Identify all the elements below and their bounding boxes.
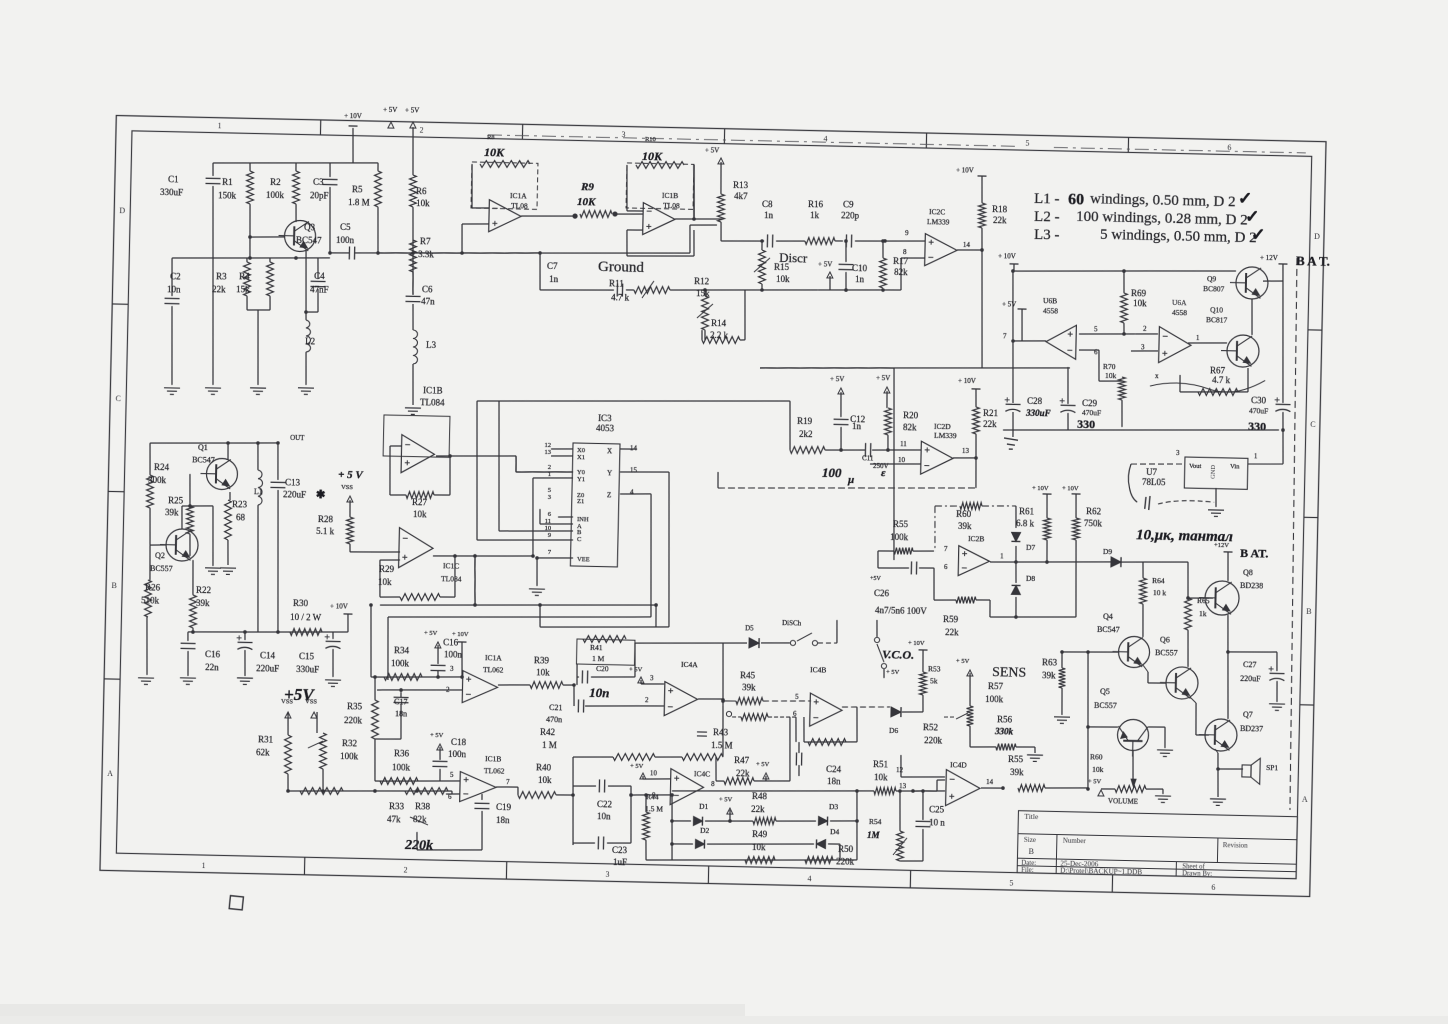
svg-text:B: B (1029, 847, 1035, 856)
svg-text:R20: R20 (903, 410, 919, 420)
svg-text:+ 10V: + 10V (956, 166, 974, 174)
svg-text:220k: 220k (836, 856, 855, 866)
svg-text:5: 5 (548, 487, 551, 494)
svg-text:D6: D6 (889, 726, 899, 735)
svg-text:C23: C23 (612, 845, 628, 855)
svg-text:3.3k: 3.3k (418, 249, 434, 259)
svg-text:C1: C1 (168, 174, 179, 184)
svg-text:+ 10V: + 10V (452, 631, 469, 638)
svg-text:D2: D2 (700, 826, 710, 835)
svg-text:✓: ✓ (1238, 189, 1253, 208)
svg-text:10: 10 (898, 456, 906, 464)
svg-text:+ 5V: + 5V (629, 666, 643, 673)
svg-text:220k: 220k (404, 838, 433, 854)
svg-text:BC817: BC817 (1206, 315, 1228, 324)
svg-text:47k: 47k (387, 814, 401, 824)
svg-text:+ 5V: + 5V (1088, 778, 1102, 785)
svg-text:15k: 15k (696, 288, 710, 298)
svg-text:C21: C21 (549, 703, 563, 712)
svg-text:R11: R11 (609, 278, 624, 288)
svg-text:C7: C7 (547, 261, 558, 271)
svg-text:R8: R8 (487, 134, 495, 141)
svg-text:IC1B: IC1B (662, 191, 678, 200)
svg-text:5k: 5k (930, 676, 938, 685)
svg-text:Vin: Vin (1230, 463, 1240, 470)
svg-text:750k: 750k (1084, 518, 1103, 528)
svg-text:BC547: BC547 (296, 235, 322, 246)
svg-text:+ 5V: + 5V (383, 106, 397, 114)
svg-text:R56: R56 (997, 714, 1013, 724)
svg-text:R41: R41 (590, 643, 603, 652)
svg-text:D5: D5 (745, 624, 754, 632)
svg-text:IC2C: IC2C (929, 207, 945, 216)
svg-text:3: 3 (548, 494, 551, 501)
svg-text:Q3: Q3 (304, 222, 316, 232)
svg-text:4558: 4558 (1043, 306, 1058, 315)
svg-text:windings, 0.50 mm, D 2: windings, 0.50 mm, D 2 (1090, 191, 1236, 210)
svg-text:220uF: 220uF (256, 663, 279, 673)
svg-text:R19: R19 (797, 416, 813, 426)
svg-text:V.C.O.: V.C.O. (882, 647, 914, 662)
svg-text:R3: R3 (216, 271, 227, 281)
svg-text:10n: 10n (589, 685, 610, 700)
svg-text:100n: 100n (448, 749, 467, 759)
svg-text:100n: 100n (336, 235, 355, 245)
svg-text:VEE: VEE (577, 556, 590, 563)
svg-text:D9: D9 (1103, 547, 1113, 556)
svg-text:R61: R61 (1019, 506, 1034, 516)
svg-text:R39: R39 (534, 655, 550, 665)
svg-text:1n: 1n (764, 210, 774, 220)
svg-text:2: 2 (548, 464, 551, 471)
svg-text:330: 330 (1248, 419, 1266, 433)
svg-text:R23: R23 (232, 499, 248, 509)
svg-text:+ 5V: + 5V (424, 630, 438, 637)
svg-text:C9: C9 (843, 199, 854, 209)
svg-text:Drawn By:: Drawn By: (1182, 870, 1212, 878)
svg-text:R21: R21 (983, 408, 998, 418)
svg-text:C17: C17 (394, 697, 408, 706)
svg-text:1.5 M: 1.5 M (645, 804, 663, 813)
svg-text:R60: R60 (956, 509, 972, 519)
svg-text:R51: R51 (873, 759, 888, 769)
svg-text:5: 5 (1025, 139, 1029, 148)
svg-text:1k: 1k (810, 210, 820, 220)
svg-text:IC2B: IC2B (968, 534, 984, 543)
svg-text:Number: Number (1063, 837, 1087, 846)
svg-text:SENS: SENS (992, 665, 1027, 681)
svg-text:10k: 10k (378, 577, 392, 587)
svg-text:R31: R31 (258, 734, 273, 744)
svg-text:VSS: VSS (281, 698, 293, 705)
svg-text:L1: L1 (254, 487, 263, 496)
svg-text:470uF: 470uF (1249, 406, 1268, 415)
svg-text:U6B: U6B (1043, 296, 1057, 305)
svg-text:+ 10V: + 10V (344, 112, 362, 120)
svg-text:C30: C30 (1251, 395, 1267, 405)
svg-text:+ 10V: + 10V (1032, 485, 1049, 492)
svg-text:39k: 39k (1010, 767, 1024, 777)
svg-text:BC557: BC557 (1094, 701, 1117, 710)
svg-text:X: X (607, 447, 612, 455)
svg-text:1n: 1n (852, 421, 862, 431)
svg-text:1.5 M: 1.5 M (711, 740, 733, 750)
svg-text:6: 6 (1211, 883, 1215, 892)
svg-text:330uF: 330uF (296, 664, 319, 674)
svg-text:R35: R35 (347, 701, 363, 711)
svg-text:R34: R34 (394, 645, 410, 655)
svg-text:C: C (115, 394, 121, 403)
svg-text:C22: C22 (597, 799, 612, 809)
svg-text:R63: R63 (1042, 657, 1058, 667)
svg-text:B AT.: B AT. (1240, 546, 1269, 561)
svg-text:✓: ✓ (1251, 225, 1266, 244)
svg-text:10n: 10n (167, 284, 181, 294)
svg-text:1M: 1M (867, 830, 881, 840)
svg-text:150k: 150k (218, 190, 237, 200)
svg-text:R53: R53 (928, 664, 941, 673)
svg-text:C15: C15 (299, 651, 315, 661)
svg-text:5: 5 (1009, 879, 1013, 888)
svg-text:+ 5V: + 5V (886, 669, 900, 676)
svg-text:LM339: LM339 (934, 431, 957, 440)
svg-text:39k: 39k (165, 507, 179, 517)
svg-text:C19: C19 (496, 802, 512, 812)
svg-text:R24: R24 (154, 462, 170, 472)
svg-text:+ 5V: + 5V (430, 732, 444, 739)
svg-text:100: 100 (822, 465, 842, 480)
svg-text:C: C (577, 536, 581, 543)
svg-text:22k: 22k (736, 768, 750, 778)
svg-text:14: 14 (986, 778, 994, 786)
svg-text:+ 10V: + 10V (998, 252, 1016, 260)
svg-text:L3: L3 (426, 340, 437, 350)
svg-text:R67: R67 (1210, 365, 1226, 375)
svg-text:+ 5V: + 5V (876, 374, 890, 382)
svg-text:22k: 22k (945, 627, 959, 637)
svg-text:C4: C4 (314, 271, 325, 281)
svg-text:4n7/5n6 100V: 4n7/5n6 100V (875, 605, 927, 616)
svg-text:3: 3 (605, 870, 609, 879)
svg-text:D3: D3 (829, 802, 839, 811)
svg-text:TL084: TL084 (441, 574, 462, 583)
svg-text:VOLUME: VOLUME (1108, 797, 1138, 806)
svg-text:10 n: 10 n (929, 817, 945, 827)
svg-text:330uF: 330uF (1025, 408, 1051, 419)
svg-text:R64: R64 (1152, 576, 1165, 585)
svg-text:Revision: Revision (1223, 841, 1249, 850)
svg-text:Date:: Date: (1021, 860, 1036, 867)
svg-text:1 M: 1 M (542, 740, 557, 750)
svg-text:10k: 10k (874, 772, 888, 782)
svg-text:BD237: BD237 (1240, 724, 1263, 733)
svg-text:Q1: Q1 (198, 443, 208, 452)
svg-text:14: 14 (630, 444, 638, 452)
svg-text:R52: R52 (923, 722, 938, 732)
svg-text:39k: 39k (742, 682, 756, 692)
svg-text:13: 13 (544, 449, 551, 456)
svg-text:C8: C8 (762, 199, 773, 209)
svg-text:R4: R4 (239, 271, 250, 281)
svg-text:Y1: Y1 (577, 476, 585, 483)
svg-text:100k: 100k (985, 694, 1004, 704)
svg-text:R29: R29 (379, 564, 395, 574)
svg-text:+ 10V: + 10V (908, 640, 925, 647)
svg-text:470n: 470n (546, 715, 562, 724)
svg-text:1n: 1n (549, 274, 559, 284)
svg-text:R13: R13 (733, 180, 749, 190)
svg-text:R59: R59 (943, 614, 959, 624)
svg-text:R40: R40 (536, 762, 552, 772)
svg-text:TL084: TL084 (420, 397, 445, 408)
svg-text:GND: GND (1210, 465, 1217, 480)
svg-text:10n: 10n (597, 811, 611, 821)
svg-text:+ 5V: + 5V (830, 375, 844, 383)
svg-text:VSS: VSS (341, 484, 353, 491)
svg-text:39k: 39k (1042, 670, 1056, 680)
svg-text:10 / 2 W: 10 / 2 W (290, 612, 322, 623)
svg-text:10K: 10K (642, 149, 663, 163)
svg-text:10k: 10k (416, 198, 430, 208)
svg-text:D7: D7 (1026, 543, 1036, 552)
svg-text:Vout: Vout (1189, 463, 1202, 470)
svg-text:R12: R12 (694, 276, 709, 286)
svg-text:Q8: Q8 (1243, 568, 1253, 577)
svg-text:22k: 22k (751, 804, 765, 814)
svg-text:10: 10 (650, 769, 658, 777)
svg-text:R38: R38 (415, 801, 431, 811)
svg-text:+ 5V: + 5V (705, 146, 719, 154)
svg-text:60: 60 (1068, 191, 1084, 208)
svg-text:15: 15 (630, 466, 638, 474)
svg-text:R32: R32 (342, 738, 357, 748)
svg-text:+ 10V: + 10V (330, 602, 348, 610)
svg-text:R26: R26 (145, 582, 161, 592)
svg-text:BC557: BC557 (1155, 648, 1178, 657)
svg-text:C5: C5 (340, 222, 351, 232)
svg-text:4: 4 (807, 874, 811, 883)
svg-text:Z: Z (607, 491, 611, 499)
svg-text:R57: R57 (988, 681, 1004, 691)
svg-text:TL062: TL062 (483, 665, 504, 674)
svg-text:+ 5V: + 5V (818, 260, 832, 268)
svg-text:IC1A: IC1A (510, 191, 527, 200)
svg-text:R27: R27 (412, 497, 428, 507)
svg-text:10k: 10k (1133, 298, 1147, 308)
svg-text:R45: R45 (740, 670, 756, 680)
svg-text:B: B (111, 581, 117, 590)
svg-text:DiSCh: DiSCh (782, 619, 802, 627)
svg-text:C24: C24 (826, 764, 842, 774)
svg-text:IC2D: IC2D (934, 422, 951, 431)
svg-text:220uF: 220uF (1240, 674, 1261, 683)
svg-text:IC3: IC3 (598, 413, 612, 423)
svg-text:10k: 10k (413, 509, 427, 519)
svg-text:R36: R36 (394, 748, 410, 758)
svg-text:1n: 1n (855, 274, 865, 284)
svg-text:+ 5 V: + 5 V (338, 469, 365, 482)
svg-text:15k: 15k (236, 284, 250, 294)
svg-text:Q4: Q4 (1103, 612, 1113, 621)
svg-text:510k: 510k (141, 595, 160, 605)
svg-text:6: 6 (1227, 143, 1231, 152)
svg-text:R60: R60 (1090, 752, 1103, 761)
svg-text:Q6: Q6 (1160, 635, 1170, 644)
svg-text:Q7: Q7 (1243, 710, 1253, 719)
svg-text:VSS: VSS (305, 698, 317, 705)
svg-text:R50: R50 (838, 844, 854, 854)
svg-text:R62: R62 (1086, 506, 1101, 516)
svg-text:18n: 18n (496, 815, 510, 825)
svg-text:IC1B: IC1B (485, 754, 501, 763)
svg-text:22k: 22k (983, 419, 997, 429)
svg-text:300k: 300k (148, 475, 167, 485)
svg-text:μ: μ (847, 474, 854, 486)
svg-text:5 windings, 0.50 mm, D 2: 5 windings, 0.50 mm, D 2 (1100, 227, 1257, 246)
svg-text:47nF: 47nF (310, 284, 329, 294)
svg-text:L3 -: L3 - (1034, 227, 1060, 244)
svg-text:R14: R14 (711, 318, 727, 328)
svg-text:BC547: BC547 (1097, 625, 1120, 634)
svg-text:R18: R18 (992, 204, 1008, 214)
svg-text:4.7 k: 4.7 k (611, 292, 630, 302)
svg-text:C28: C28 (1027, 396, 1043, 406)
svg-text:R28: R28 (318, 514, 334, 524)
svg-text:✱: ✱ (316, 489, 325, 501)
svg-text:C20: C20 (596, 664, 609, 673)
svg-text:+ 5V: + 5V (630, 763, 644, 770)
svg-text:+ 10V: + 10V (958, 377, 976, 385)
svg-text:18n: 18n (395, 709, 407, 718)
svg-text:4.7 k: 4.7 k (1212, 375, 1231, 385)
svg-text:R2: R2 (270, 177, 281, 187)
svg-text:C16: C16 (205, 649, 221, 659)
svg-text:+ 5V: + 5V (719, 796, 733, 803)
svg-text:R44: R44 (646, 792, 659, 801)
svg-text:13: 13 (899, 782, 907, 790)
svg-text:IC4D: IC4D (950, 760, 967, 769)
svg-text:330k: 330k (994, 726, 1014, 736)
svg-text:1uF: 1uF (613, 857, 627, 867)
svg-text:File:: File: (1021, 867, 1034, 874)
svg-text:IC4B: IC4B (810, 665, 826, 674)
svg-text:78L05: 78L05 (1142, 477, 1166, 488)
svg-text:4k7: 4k7 (734, 191, 748, 201)
svg-text:R9: R9 (580, 181, 595, 193)
svg-text:100k: 100k (340, 751, 359, 761)
svg-text:62k: 62k (256, 747, 270, 757)
svg-text:12: 12 (896, 766, 904, 774)
svg-text:47n: 47n (421, 296, 435, 306)
svg-text:100k: 100k (391, 658, 410, 668)
svg-text:9: 9 (548, 532, 551, 539)
svg-text:220uF: 220uF (283, 489, 306, 499)
svg-text:10k: 10k (536, 667, 550, 677)
svg-text:U6A: U6A (1172, 298, 1187, 307)
svg-text:2k2: 2k2 (799, 429, 813, 439)
svg-text:C16: C16 (443, 637, 459, 647)
svg-text:R15: R15 (774, 262, 790, 272)
svg-text:68: 68 (236, 512, 246, 522)
svg-text:2.2 k: 2.2 k (710, 330, 729, 340)
svg-text:+ 12V: + 12V (1260, 254, 1278, 262)
svg-text:Size: Size (1024, 836, 1036, 844)
svg-text:R43: R43 (713, 727, 729, 737)
svg-text:R22: R22 (196, 585, 211, 595)
svg-text:1k: 1k (1199, 609, 1207, 618)
svg-text:BC557: BC557 (150, 564, 173, 573)
svg-text:A: A (107, 769, 113, 778)
svg-text:C6: C6 (422, 284, 433, 294)
svg-text:1: 1 (202, 861, 206, 870)
svg-text:R55: R55 (893, 519, 909, 529)
svg-text:D4: D4 (830, 827, 840, 836)
svg-text:Q9: Q9 (1207, 274, 1217, 283)
svg-text:10k: 10k (538, 775, 552, 785)
svg-text:10k: 10k (1105, 371, 1117, 380)
svg-text:Q2: Q2 (155, 551, 165, 560)
svg-text:+ 10V: + 10V (1062, 485, 1079, 492)
svg-text:+ 5V: + 5V (756, 761, 770, 768)
svg-text:IC4A: IC4A (681, 660, 698, 669)
svg-text:R54: R54 (869, 817, 882, 826)
svg-text:4053: 4053 (596, 423, 615, 433)
svg-text:D: D (1314, 232, 1320, 241)
svg-text:20pF: 20pF (310, 190, 329, 200)
svg-text:39k: 39k (958, 521, 972, 531)
svg-text:1 M: 1 M (592, 654, 605, 663)
svg-text:R49: R49 (752, 829, 768, 839)
svg-text:14: 14 (963, 241, 971, 249)
svg-text:220p: 220p (841, 210, 860, 220)
svg-text:C29: C29 (1082, 398, 1098, 408)
svg-text:Q5: Q5 (1100, 687, 1110, 696)
svg-text:D1: D1 (699, 802, 709, 811)
svg-text:B: B (1306, 607, 1312, 616)
svg-text:BC547: BC547 (192, 455, 215, 464)
svg-text:+ 5V: + 5V (405, 106, 419, 114)
svg-text:C10: C10 (852, 263, 868, 273)
svg-text:R30: R30 (293, 598, 309, 608)
svg-text:X1: X1 (577, 454, 585, 461)
svg-text:2: 2 (419, 126, 423, 135)
svg-text:R69: R69 (1131, 288, 1147, 298)
svg-text:10k: 10k (1092, 765, 1104, 774)
svg-text:R7: R7 (420, 236, 431, 246)
svg-text:13: 13 (962, 447, 970, 455)
svg-text:✓: ✓ (1245, 207, 1260, 226)
svg-text:TL062: TL062 (484, 766, 505, 775)
svg-text:39k: 39k (196, 598, 210, 608)
svg-text:1: 1 (218, 121, 222, 130)
svg-text:+5V: +5V (870, 576, 882, 582)
svg-text:R5: R5 (352, 184, 363, 194)
svg-text:BC807: BC807 (1203, 284, 1225, 293)
svg-text:+ 5V: + 5V (1002, 300, 1016, 308)
svg-text:R47: R47 (734, 755, 750, 765)
svg-text:R16: R16 (808, 199, 824, 209)
svg-text:R42: R42 (540, 727, 555, 737)
svg-text:C26: C26 (874, 588, 890, 598)
svg-text:R1: R1 (222, 177, 233, 187)
svg-text:R55: R55 (1008, 754, 1024, 764)
svg-text:330: 330 (1077, 417, 1095, 431)
svg-text:R70: R70 (1103, 362, 1116, 371)
svg-text:220k: 220k (924, 735, 943, 745)
svg-text:C25: C25 (929, 804, 945, 814)
svg-text:22n: 22n (205, 662, 219, 672)
svg-text:82k: 82k (903, 422, 917, 432)
